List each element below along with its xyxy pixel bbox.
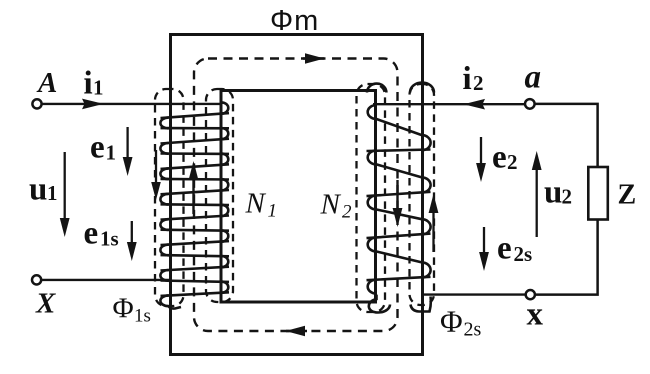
svg-text:1: 1 [268, 201, 278, 222]
svg-text:u: u [29, 172, 47, 208]
svg-text:e: e [84, 216, 99, 252]
wire load Z to x [535, 220, 598, 295]
svg-text:Φ: Φ [113, 293, 134, 325]
winding N1 crossing conductors [161, 113, 230, 296]
svg-text:2: 2 [562, 185, 573, 209]
leakage flux Phi-2s arrow (up) [432, 203, 434, 252]
wire A to winding N1 [42, 103, 221, 105]
svg-text:2: 2 [473, 71, 484, 95]
flux Phi-m dashed loop [194, 59, 398, 332]
winding N1 right-side turns [222, 102, 229, 292]
svg-text:2s: 2s [464, 319, 482, 341]
svg-text:1s: 1s [100, 227, 119, 251]
flux Phi-m arrow bottom (left) [286, 330, 307, 332]
core outer edge [171, 35, 423, 355]
winding N1 bottom end [169, 306, 181, 308]
winding N2 left-side turns [368, 105, 377, 294]
winding N2 top arc inner [367, 84, 386, 93]
current i2 arrow [464, 99, 486, 110]
svg-text:a: a [525, 60, 542, 96]
svg-text:2: 2 [342, 202, 352, 223]
svg-text:N: N [245, 188, 267, 220]
svg-text:i: i [463, 61, 472, 97]
current i1 arrow [82, 99, 104, 110]
svg-text:e: e [497, 231, 512, 267]
svg-text:N: N [320, 189, 342, 221]
winding N2 bottom end [369, 295, 431, 313]
svg-text:X: X [35, 288, 56, 320]
svg-text:i: i [84, 66, 93, 102]
svg-text:e: e [492, 140, 507, 176]
svg-text:x: x [527, 297, 544, 333]
flux Phi-m arrow left leg (up) [192, 170, 194, 214]
winding N2 crossing conductors [367, 119, 431, 280]
svg-text:1s: 1s [134, 306, 151, 327]
core window inner edge [221, 91, 376, 303]
leakage flux Phi-1s arrow (down) [155, 150, 157, 192]
svg-text:Z: Z [618, 180, 637, 211]
svg-text:1: 1 [106, 141, 117, 165]
wire x to winding N2 [423, 293, 526, 295]
voltage u2 arrow (up) [536, 160, 538, 237]
load Z box [588, 167, 608, 220]
svg-text:1: 1 [93, 76, 104, 100]
leakage flux Phi-2s loop outer [410, 84, 435, 305]
wire winding N2 to a [373, 103, 525, 105]
svg-text:2: 2 [507, 150, 518, 174]
emf e2s arrow (down) [483, 227, 485, 262]
leakage flux Phi-1s loop outer [155, 89, 184, 306]
flux Phi-m arrow top (right) [303, 57, 324, 59]
svg-text:Φ: Φ [440, 304, 463, 339]
winding N1 left-side turns [160, 118, 168, 307]
voltage u1 arrow (down) [64, 152, 66, 228]
wire a to load Z [535, 104, 598, 167]
wire X to winding N1 [41, 279, 170, 281]
emf e2 arrow (down) [480, 137, 482, 173]
flux Phi-m arrow right leg (down) [396, 180, 398, 218]
svg-text:1: 1 [47, 181, 58, 205]
winding N2 right-side turns [422, 135, 431, 278]
leakage flux Phi-1s loop inner [206, 89, 233, 302]
node a terminal [525, 99, 535, 109]
leakage flux Phi-2s loop inner [357, 84, 386, 312]
svg-text:Φm: Φm [270, 5, 319, 37]
node A terminal [32, 99, 41, 108]
winding N2 top arc outer [410, 83, 434, 93]
svg-text:u: u [544, 175, 562, 211]
emf e1 arrow (down) [126, 127, 128, 167]
emf e1s arrow (down) [131, 221, 133, 252]
node x terminal [526, 290, 535, 299]
svg-text:A: A [36, 67, 57, 99]
svg-text:2s: 2s [514, 242, 533, 266]
node X terminal [32, 275, 41, 284]
svg-text:e: e [90, 130, 105, 166]
